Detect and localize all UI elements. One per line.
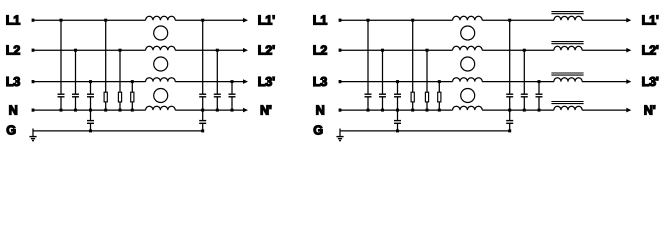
junction N / Cb3 (b) (396, 109, 399, 112)
resistor Ra1 (L1-N) (104, 20, 107, 110)
common-mode choke CHa winding L2 (146, 46, 176, 50)
junction L1 / Cb5 (b) (508, 19, 511, 22)
junction N / Cb1 (b) (367, 109, 370, 112)
common-mode choke CHb core circle 3 (461, 89, 475, 103)
junction N / Ra3 (a) (131, 109, 134, 112)
junction L2 / Ra2 (a) (119, 49, 122, 52)
svg-text:L1: L1 (6, 13, 21, 27)
svg-text:L2: L2 (6, 43, 21, 57)
common-mode choke CHa core circle 1 (154, 26, 168, 40)
capacitor Cb3 (L3-N X-cap) (394, 82, 401, 111)
svg-text:L3': L3' (642, 75, 659, 89)
resistor Ra3 (L3-N) (131, 82, 134, 111)
capacitor Ca8 (N-G Y-cap output) (199, 110, 206, 131)
wire L3 rail (a) (33, 81, 245, 83)
common-mode choke CHb core circle 1 (461, 26, 475, 40)
common-mode choke CHb core circle 2 (461, 57, 475, 71)
arrow L3&#39; output (a) (243, 79, 248, 84)
capacitor Ca4 (N-G Y-cap input) (87, 110, 94, 131)
capacitor Cb4 (N-G Y-cap input) (394, 110, 401, 131)
wire L1 rail (b) (340, 19, 628, 21)
junction N / Ca7 (a) (231, 109, 234, 112)
common-mode choke CHb winding L2 (453, 46, 483, 50)
svg-text:G: G (313, 124, 323, 138)
junction N / Ra2 (a) (119, 109, 122, 112)
arrow L1&#39; output (b) (626, 18, 631, 23)
terminal N input (a) (32, 109, 35, 112)
junction L3 / Ca7 (a) (231, 80, 234, 83)
terminal L1 input (a) (32, 19, 35, 22)
terminal L3 input (a) (32, 80, 35, 83)
svg-text:L2: L2 (313, 43, 328, 57)
wire N rail (b) (340, 109, 628, 111)
svg-text:G: G (6, 124, 16, 138)
resistor Ra2 (L2-N) (118, 50, 121, 110)
junction L2 / Cb2 (b) (381, 49, 384, 52)
junction N / Cb6 (b) (523, 109, 526, 112)
capacitor Cb1 (L1-N X-cap) (365, 20, 372, 110)
svg-text:N': N' (644, 103, 656, 117)
wire G rail (b) (340, 130, 510, 132)
ground symbol (b) (336, 129, 343, 141)
junction L1 / Ra1 (a) (104, 19, 107, 22)
junction L1 / Rb1 (b) (411, 19, 414, 22)
capacitor Ca6 (L2-N X-cap output) (214, 50, 221, 110)
terminal L2 input (b) (339, 49, 342, 52)
common-mode choke CHa core circle 2 (154, 57, 168, 71)
wire N rail (a) (33, 109, 245, 111)
junction L3 / Cb7 (b) (538, 80, 541, 83)
common-mode choke CHa winding L1 (146, 16, 176, 20)
junction N / Cb2 (b) (381, 109, 384, 112)
resistor Rb3 (L3-N) (438, 82, 441, 111)
arrow N&#39; output (b) (626, 108, 631, 113)
junction L1 / Cb1 (b) (367, 19, 370, 22)
capacitor Cb7 (L3-N X-cap output) (536, 82, 543, 111)
common-mode choke CHb winding N (453, 106, 483, 110)
arrow L2&#39; output (b) (626, 48, 631, 53)
junction L2 / Ca6 (a) (216, 49, 219, 52)
common-mode choke CHb winding L1 (453, 16, 483, 20)
junction L2 / Rb2 (b) (426, 49, 429, 52)
svg-text:N: N (9, 103, 18, 117)
svg-text:L2': L2' (642, 43, 659, 57)
inductor L7 (iron core, L3&#39; line) (551, 73, 583, 82)
terminal N input (b) (339, 109, 342, 112)
junction L3 / Cb3 (b) (396, 80, 399, 83)
resistor Rb1 (L1-N) (411, 20, 414, 110)
junction N / Ca5 (a) (201, 109, 204, 112)
junction N / Ca1 (a) (60, 109, 63, 112)
junction N / Ca3 (a) (89, 109, 92, 112)
capacitor Cb5 (L1-N X-cap output) (506, 20, 513, 110)
svg-text:L2': L2' (258, 43, 275, 57)
inductor L5 (iron core, L1&#39; line) (551, 12, 583, 21)
junction L1 / Ca5 (a) (201, 19, 204, 22)
capacitor Ca5 (L1-N X-cap output) (199, 20, 206, 110)
capacitor Cb2 (L2-N X-cap) (379, 50, 386, 110)
svg-text:L3: L3 (6, 75, 21, 89)
common-mode choke CHb winding L3 (453, 78, 483, 82)
capacitor Ca2 (L2-N X-cap) (72, 50, 79, 110)
terminal L2 input (a) (32, 49, 35, 52)
svg-text:L1': L1' (642, 13, 659, 27)
common-mode choke CHa winding L3 (146, 78, 176, 82)
junction N / Ca2 (a) (74, 109, 77, 112)
wire L1 rail (a) (33, 19, 245, 21)
wire L3 rail (b) (340, 81, 628, 83)
ground symbol (a) (29, 129, 36, 141)
junction N / Rb3 (b) (438, 109, 441, 112)
junction N / Cb5 (b) (508, 109, 511, 112)
svg-text:L1: L1 (313, 13, 328, 27)
svg-text:L3: L3 (313, 75, 328, 89)
inductor L6 (iron core, L2&#39; line) (551, 42, 583, 51)
junction G / Cb4 (b) (396, 129, 399, 132)
junction N / Rb1 (b) (411, 109, 414, 112)
junction N / Ca6 (a) (216, 109, 219, 112)
common-mode choke CHa core circle 3 (154, 89, 168, 103)
svg-text:N: N (316, 103, 325, 117)
junction G / Ca4 (a) (89, 129, 92, 132)
capacitor Ca3 (L3-N X-cap) (87, 82, 94, 111)
svg-text:L3': L3' (258, 75, 275, 89)
junction L2 / Cb6 (b) (523, 49, 526, 52)
terminal L1 input (b) (339, 19, 342, 22)
arrow L2&#39; output (a) (243, 48, 248, 53)
junction N / Ra1 (a) (104, 109, 107, 112)
junction L3 / Rb3 (b) (438, 80, 441, 83)
capacitor Cb8 (N-G Y-cap output) (506, 110, 513, 131)
svg-text:L1': L1' (258, 13, 275, 27)
arrow L3&#39; output (b) (626, 79, 631, 84)
wire L2 rail (b) (340, 49, 628, 51)
junction N / Cb7 (b) (538, 109, 541, 112)
capacitor Ca1 (L1-N X-cap) (58, 20, 65, 110)
capacitor Ca7 (L3-N X-cap output) (229, 82, 236, 111)
arrow L1&#39; output (a) (243, 18, 248, 23)
arrow N&#39; output (a) (243, 108, 248, 113)
resistor Rb2 (L2-N) (425, 50, 428, 110)
junction L1 / Ca1 (a) (60, 19, 63, 22)
junction L3 / Ra3 (a) (131, 80, 134, 83)
junction L3 / Ca3 (a) (89, 80, 92, 83)
common-mode choke CHa winding N (146, 106, 176, 110)
junction G / Cb8 (b) (508, 129, 511, 132)
svg-text:N': N' (260, 103, 272, 117)
inductor L8 (iron core, N&#39; line) (551, 102, 583, 111)
junction L2 / Ca2 (a) (74, 49, 77, 52)
terminal L3 input (b) (339, 80, 342, 83)
junction N / Rb2 (b) (426, 109, 429, 112)
wire G rail (a) (33, 130, 203, 132)
wire L2 rail (a) (33, 49, 245, 51)
capacitor Cb6 (L2-N X-cap output) (521, 50, 528, 110)
junction G / Ca8 (a) (201, 129, 204, 132)
